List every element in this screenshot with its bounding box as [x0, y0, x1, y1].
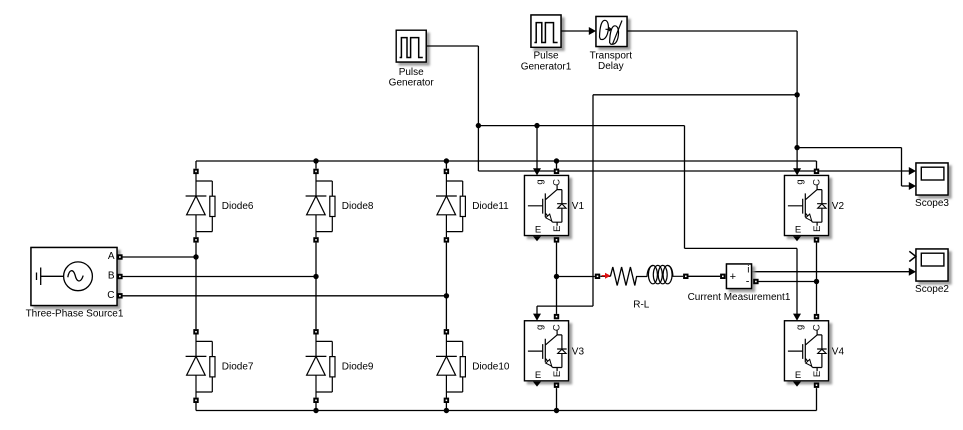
svg-text:i: i: [747, 265, 749, 276]
wire: Pulse Generator output to node A (horizontal): [426, 45, 478, 47]
junction: load node right: [814, 279, 819, 284]
svg-text:+: +: [730, 271, 736, 283]
wire: long pulse-signal line to Scope3 input 1: [478, 170, 909, 172]
wire: phase B from source to diode leg 2: [123, 276, 317, 278]
svg-text:Diode10: Diode10: [472, 362, 510, 373]
current measurement block Current Measurement1: [720, 264, 759, 289]
junction: phase A node: [193, 254, 198, 259]
junction: bus to Diode8: [313, 158, 318, 163]
source port A square: [117, 254, 122, 259]
wire: Diode9 bottom drop: [315, 403, 317, 411]
svg-text:-: -: [746, 275, 750, 287]
source port C square: [117, 293, 122, 298]
svg-text:Delay: Delay: [598, 61, 624, 72]
wire: pulse net branch down from node A: [477, 126, 479, 171]
svg-text:Diode9: Diode9: [342, 362, 374, 373]
transistor V2 (IGBT): [785, 169, 845, 243]
diode Diode6: [186, 169, 254, 243]
svg-text:Transport: Transport: [590, 50, 633, 61]
node D junction (delay net, Scope3 tap): [794, 145, 799, 150]
wire: Scope3 branch vertical: [901, 148, 903, 186]
arrowhead into V4 gate: [793, 314, 801, 321]
arrowhead into Transport Delay input: [589, 27, 596, 35]
svg-text:V3: V3: [572, 346, 585, 357]
svg-text:Diode7: Diode7: [222, 362, 254, 373]
junction: bus to V3 emitter: [554, 408, 559, 413]
transistor V1 (IGBT): [525, 169, 585, 243]
scope block Scope2: [916, 249, 948, 281]
wire: diode leg 1 midpoint vertical: [195, 243, 197, 330]
scope block Scope3: [916, 163, 948, 195]
wire: V1 emitter down to load node: [556, 243, 558, 277]
wire: load node to R-L branch: [557, 276, 595, 278]
svg-text:Pulse: Pulse: [533, 51, 558, 62]
wire: diode leg 2 midpoint vertical: [315, 243, 317, 330]
wire: pulse net horizontal A to C corner: [478, 125, 684, 127]
svg-text:B: B: [108, 270, 115, 281]
arrowhead into V2 gate: [793, 168, 801, 175]
wire: pulse net vertical down to node A: [477, 46, 479, 126]
svg-text:Diode6: Diode6: [222, 201, 254, 212]
source port B square: [117, 274, 122, 279]
diode Diode10: [436, 329, 510, 403]
junction: phase C node: [444, 293, 449, 298]
wire: delay net vertical down to node D: [796, 95, 798, 148]
wire: delay net horizontal to V3 gate column: [537, 305, 593, 307]
unconnected input chevron Scope2 input 1: [909, 251, 916, 261]
wire: delay net branch right toward Scope3: [797, 147, 901, 149]
wire: pulse net horizontal to V4 gate column: [685, 247, 798, 249]
node C junction (delay net): [794, 92, 799, 97]
junction: load node left: [554, 274, 559, 279]
wire: R-L branch to Current Measurement1 plus: [688, 275, 720, 277]
wire: delay net vertical down to node C: [796, 31, 798, 95]
diode Diode11: [436, 169, 509, 243]
wire: V2 gate drop: [796, 148, 798, 169]
svg-text:V2: V2: [832, 201, 845, 212]
node B junction (pulse net, V1 gate tap): [534, 123, 539, 128]
arrowhead into Scope3 input 2: [909, 182, 916, 190]
transistor V3 (IGBT): [525, 314, 585, 388]
transport delay block U: Transport Delay: [596, 17, 627, 47]
svg-text:Generator1: Generator1: [521, 61, 572, 72]
diode Diode9: [306, 329, 374, 403]
junction: bus to V1 collector: [554, 158, 559, 163]
diode Diode8: [306, 169, 374, 243]
svg-text:Current Measurement1: Current Measurement1: [688, 292, 791, 303]
transistor V4 (IGBT): [785, 314, 845, 388]
wire: current signal i to Scope2: [752, 271, 910, 273]
wire: into Scope3 input 2: [902, 185, 910, 187]
wire: bus drop to V1 collector port: [556, 161, 558, 169]
junction: bus to Diode9: [313, 408, 318, 413]
wire: delay net vertical down left branch: [592, 95, 594, 306]
node A junction (pulse net): [476, 123, 481, 128]
wire: Pulse Generator1 output to Transport Delay: [561, 30, 589, 32]
junction: bus to Diode11: [444, 158, 449, 163]
svg-text:Generator: Generator: [389, 78, 435, 89]
wire: diode leg 3 midpoint vertical: [445, 243, 447, 330]
wire: V4 gate drop: [796, 248, 798, 314]
wire: V3 gate drop: [536, 306, 538, 314]
wire: Diode10 bottom drop: [445, 403, 447, 411]
wire: DC negative bus (bottom): [196, 388, 817, 410]
svg-text:A: A: [108, 251, 115, 262]
svg-text:Scope2: Scope2: [915, 284, 949, 295]
wire: bus drop to Diode11 top port: [445, 161, 447, 169]
svg-text:R-L: R-L: [633, 300, 650, 311]
pulse generator block "Pulse Generator1": [531, 15, 561, 47]
wire: load node down to V3 collector: [556, 277, 558, 314]
wire: V2 emitter down to V4 collector: [816, 243, 818, 314]
diode Diode7: [186, 329, 254, 403]
svg-text:V4: V4: [832, 346, 845, 357]
svg-text:Three-Phase Source1: Three-Phase Source1: [26, 309, 124, 320]
junction: bus to Diode10: [444, 408, 449, 413]
wire: V1 gate drop: [536, 126, 538, 169]
arrowhead into V1 gate: [533, 168, 541, 175]
arrowhead into Scope2 input 2: [909, 268, 916, 276]
wire: phase A from source to diode leg 1: [123, 256, 197, 258]
svg-text:V1: V1: [572, 201, 585, 212]
R-L series branch (resistor + inductor): [595, 265, 689, 285]
arrowhead into Scope3 input 1: [909, 167, 916, 175]
pulse generator block "Pulse Generator": [396, 30, 426, 62]
svg-text:Diode11: Diode11: [472, 201, 509, 212]
three-phase source block "Three-Phase Source1": [31, 248, 117, 306]
wire: delay net branch left toward V3: [593, 94, 797, 96]
wire: bus drop to Diode8 top port: [315, 161, 317, 169]
wire: phase C from source to diode leg 3: [123, 295, 447, 297]
svg-text:C: C: [107, 290, 114, 301]
wire: Current Measurement1 minus to right leg: [759, 281, 817, 283]
junction: phase B node: [313, 274, 318, 279]
svg-text:Pulse: Pulse: [399, 67, 424, 78]
wire: V3 emitter drop to bus: [556, 388, 558, 410]
svg-text:Scope3: Scope3: [915, 198, 949, 209]
wire: pulse net down right side: [684, 126, 686, 249]
arrowhead into V3 gate: [533, 314, 541, 321]
wire: Transport Delay output horizontal: [627, 30, 797, 32]
svg-text:Diode8: Diode8: [342, 201, 374, 212]
wire: DC positive bus (top): [196, 161, 817, 169]
